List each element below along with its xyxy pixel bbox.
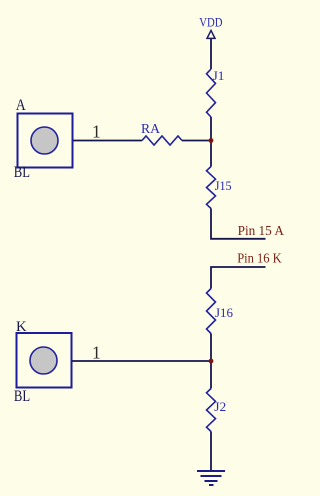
- resistor J15: [207, 167, 216, 209]
- circle inside box A: [31, 127, 58, 154]
- power port VDD arrow symbol: [207, 30, 215, 38]
- component box K (BL): [17, 333, 72, 388]
- junction node bottom: [209, 359, 214, 364]
- wire RA to node: [182, 140, 211, 142]
- svg-text:J1: J1: [213, 69, 225, 83]
- wire Pin 16 K to J16: [211, 267, 266, 289]
- ground symbol: [197, 471, 225, 485]
- wire J15 to Pin 15 A: [211, 209, 266, 239]
- resistor J2: [207, 389, 216, 432]
- svg-text:J16: J16: [215, 306, 233, 320]
- svg-text:1: 1: [92, 343, 101, 363]
- svg-text:1: 1: [92, 121, 101, 141]
- svg-text:BL: BL: [14, 388, 30, 405]
- circle inside box K: [30, 347, 57, 374]
- svg-text:BL: BL: [14, 164, 30, 181]
- svg-text:Pin 16 K: Pin 16 K: [237, 252, 281, 267]
- resistor J1: [207, 69, 216, 117]
- svg-text:K: K: [16, 319, 27, 335]
- wire VDD to J1: [210, 38, 212, 69]
- svg-text:J2: J2: [214, 400, 226, 414]
- resistor RA: [142, 136, 182, 145]
- wire J1 to J15 through node: [210, 117, 212, 167]
- svg-text:VDD: VDD: [199, 15, 222, 29]
- component box A (BL): [18, 114, 73, 168]
- wire J2 to ground: [210, 432, 212, 472]
- junction node top: [209, 138, 214, 143]
- svg-text:RA: RA: [141, 122, 161, 137]
- resistor J16: [207, 289, 216, 334]
- svg-text:Pin 15 A: Pin 15 A: [238, 224, 285, 239]
- wire box K to node: [72, 360, 211, 362]
- svg-text:A: A: [16, 97, 27, 114]
- wire box A to RA: [73, 140, 142, 142]
- wire J16 to J2 through node: [210, 334, 212, 389]
- svg-text:J15: J15: [215, 179, 232, 193]
